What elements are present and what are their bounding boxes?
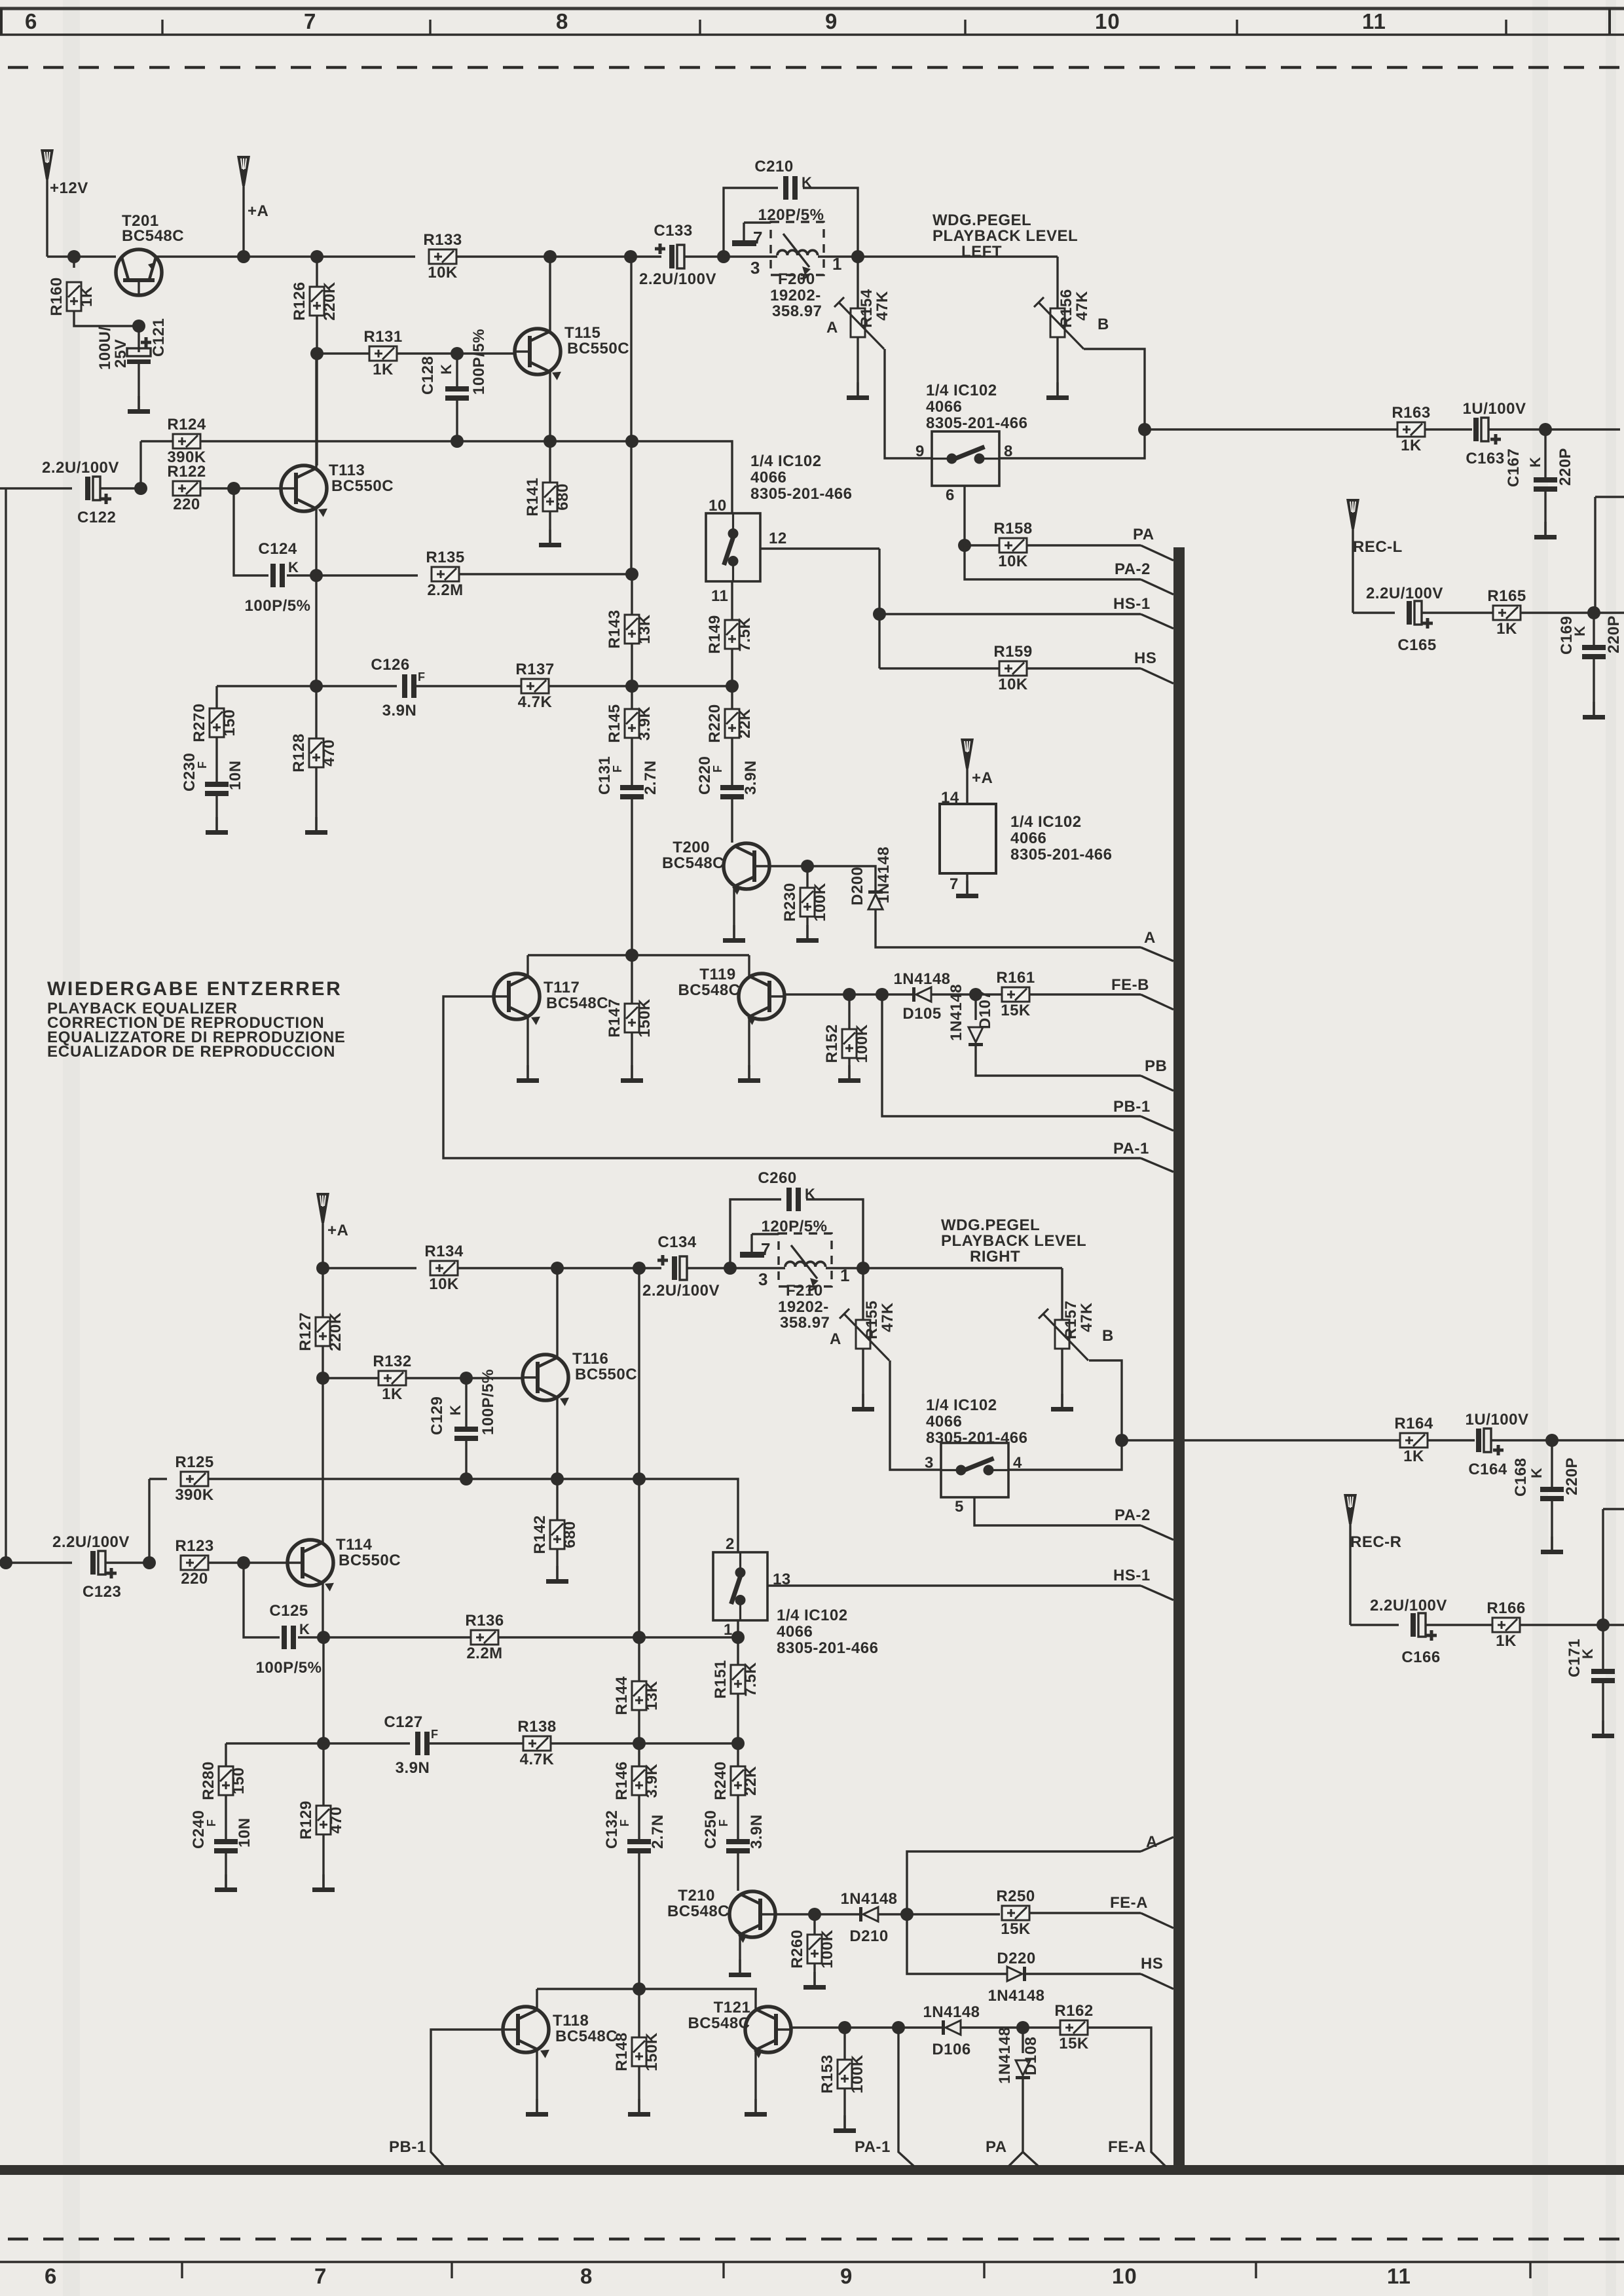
svg-text:11: 11 <box>1362 9 1386 33</box>
input wire left channel <box>0 487 72 489</box>
svg-text:7: 7 <box>761 1239 771 1259</box>
wire REC-L row <box>1353 611 1395 613</box>
wire PB to bus <box>1141 1076 1173 1091</box>
resistor R138 <box>517 1718 556 1768</box>
svg-text:13K: 13K <box>643 1681 661 1711</box>
resistor R165 <box>1487 587 1526 638</box>
wire D107 to PB <box>976 1046 1141 1076</box>
top dashed border <box>8 66 1624 69</box>
wire T118 T121 collector row <box>537 1988 757 1990</box>
svg-text:19202-: 19202- <box>770 287 821 304</box>
resistor R160 <box>73 257 75 268</box>
svg-text:2.2U/100V: 2.2U/100V <box>42 459 119 477</box>
transistor T210 <box>729 1891 775 1943</box>
svg-text:T119: T119 <box>699 966 735 983</box>
capacitor C123 <box>90 1551 117 1578</box>
transistor T121 <box>745 2007 791 2058</box>
svg-text:T118: T118 <box>553 2012 589 2030</box>
svg-text:150K: 150K <box>636 998 654 1038</box>
node rail T115 <box>544 250 557 263</box>
svg-text:10: 10 <box>709 497 727 515</box>
ground R152 <box>838 1065 860 1083</box>
svg-text:R151: R151 <box>712 1660 729 1698</box>
wire PA-1 col <box>898 2028 914 2166</box>
svg-text:2.2U/100V: 2.2U/100V <box>642 1282 720 1300</box>
svg-text:R149: R149 <box>706 615 724 653</box>
svg-text:C123: C123 <box>83 1583 121 1601</box>
svg-text:T116: T116 <box>572 1350 608 1368</box>
node rail2 R127 <box>316 1262 329 1275</box>
svg-text:22K: 22K <box>742 1766 760 1796</box>
wire T118 emitter <box>536 2050 538 2112</box>
capacitor C122 <box>85 477 111 504</box>
svg-text:R144: R144 <box>613 1676 631 1715</box>
svg-text:C131: C131 <box>596 756 614 795</box>
wire D108 to PA <box>1022 2079 1024 2152</box>
svg-text:R138: R138 <box>517 1718 556 1736</box>
capacitor C165 <box>1407 601 1433 629</box>
svg-text:BC550C: BC550C <box>331 477 394 495</box>
resistor R220 <box>731 686 733 709</box>
svg-text:R125: R125 <box>175 1453 213 1471</box>
resistor R147 <box>631 955 633 1004</box>
svg-text:680: 680 <box>561 1521 579 1548</box>
wire T119 emitter <box>748 1017 750 1078</box>
svg-text:PLAYBACK LEVEL: PLAYBACK LEVEL <box>941 1232 1086 1250</box>
svg-text:R146: R146 <box>613 1761 631 1800</box>
pot R155 <box>862 1268 864 1320</box>
svg-text:FE-A: FE-A <box>1110 1894 1148 1912</box>
wire to R157 <box>1061 1268 1063 1320</box>
node R260 <box>808 1908 821 1921</box>
transistor T118 <box>503 2007 549 2058</box>
svg-text:A: A <box>1144 929 1156 947</box>
capacitor C131 <box>631 738 633 785</box>
svg-text:100K: 100K <box>811 883 829 922</box>
svg-text:R158: R158 <box>993 520 1032 538</box>
wire pin1 col to R151 <box>737 1620 739 1665</box>
svg-text:3.9K: 3.9K <box>643 1763 661 1798</box>
wire R124 row <box>200 440 457 442</box>
svg-text:F: F <box>418 670 426 683</box>
resistor R148 <box>638 1989 640 2037</box>
wire R230 node to D200 <box>807 866 876 890</box>
diode D210 <box>859 1907 878 1922</box>
ground T200 <box>723 925 745 943</box>
wire T119 base FE-B row <box>784 993 913 995</box>
diode D200 <box>868 890 883 909</box>
svg-text:100K: 100K <box>853 1024 871 1063</box>
wire R164 to C164 <box>1428 1439 1475 1441</box>
svg-text:PA-1: PA-1 <box>1113 1140 1149 1157</box>
node input junction 2 <box>143 1556 156 1569</box>
svg-text:PA: PA <box>986 2138 1007 2156</box>
svg-text:B: B <box>1102 1327 1114 1345</box>
svg-text:R131: R131 <box>363 328 402 346</box>
svg-text:3.9N: 3.9N <box>748 1814 766 1849</box>
svg-text:K: K <box>805 1186 815 1202</box>
capacitor C168 <box>1551 1440 1553 1487</box>
svg-text:15K: 15K <box>1001 1920 1031 1938</box>
top ruler left end <box>0 9 3 35</box>
ground R142 <box>546 1566 568 1584</box>
wire R131 row <box>317 352 369 354</box>
capacitor C240 <box>225 1795 227 1839</box>
wire PA-2 to bus <box>1141 579 1173 594</box>
svg-text:PB-1: PB-1 <box>389 2138 426 2156</box>
svg-text:R122: R122 <box>167 463 206 481</box>
capacitor C124 <box>270 564 285 587</box>
svg-text:WIEDERGABE ENTZERRER: WIEDERGABE ENTZERRER <box>47 978 342 1000</box>
svg-text:3.9N: 3.9N <box>382 702 417 720</box>
wire switch pin12 <box>760 547 879 549</box>
wire IC pin7 <box>966 873 968 894</box>
wire R134 to T116 <box>458 1267 557 1269</box>
node C129 top <box>460 1372 473 1385</box>
wire C134 to head node <box>687 1267 730 1269</box>
wire C164 to node <box>1491 1439 1552 1441</box>
bottom ruler line <box>0 2261 1624 2263</box>
svg-text:T121: T121 <box>714 1999 751 2016</box>
resistor R151 <box>712 1660 760 1698</box>
svg-text:C124: C124 <box>258 540 297 558</box>
svg-text:2.2M: 2.2M <box>466 1645 502 1662</box>
svg-text:R129: R129 <box>297 1800 315 1839</box>
node switch pin1 col <box>731 1631 745 1644</box>
wire PB-1 branch <box>882 994 1141 1116</box>
node T116 emitter R142 <box>551 1472 564 1485</box>
svg-text:1U/100V: 1U/100V <box>1463 400 1526 418</box>
node T114 emitter <box>317 1631 330 1644</box>
svg-text:8305-201-466: 8305-201-466 <box>926 414 1027 432</box>
capacitor C250 <box>737 1795 739 1839</box>
power arrow +A right channel <box>316 1193 329 1223</box>
svg-text:F: F <box>205 1819 218 1827</box>
svg-text:R148: R148 <box>613 2032 631 2071</box>
svg-text:15K: 15K <box>1001 1002 1031 1019</box>
ground IC102 <box>956 881 978 898</box>
svg-text:RIGHT: RIGHT <box>970 1248 1020 1266</box>
wire row2 left end <box>217 685 316 687</box>
svg-text:2.2U/100V: 2.2U/100V <box>52 1533 130 1551</box>
resistor R162 <box>1054 2002 1093 2052</box>
svg-text:C125: C125 <box>269 1602 308 1620</box>
node A FE-A col <box>900 1908 913 1921</box>
capacitor C133 <box>655 244 684 268</box>
svg-text:4.7K: 4.7K <box>520 1751 555 1768</box>
svg-text:470: 470 <box>327 1806 345 1834</box>
svg-text:R163: R163 <box>1392 404 1430 422</box>
svg-text:R230: R230 <box>781 883 799 921</box>
PA arrow to bottom rail <box>1008 2152 1039 2166</box>
top ruler right end <box>1608 9 1611 35</box>
node C128 top <box>451 347 464 360</box>
wire R124 row to T115 emitter <box>457 440 550 442</box>
svg-text:R156: R156 <box>1058 289 1075 327</box>
left edge input link wire <box>5 488 7 1563</box>
ground T121 <box>745 2099 767 2117</box>
wire column A vertical <box>630 257 632 574</box>
wire R125 row 2 <box>466 1478 557 1480</box>
wire T113 collector <box>315 354 317 468</box>
ground R156 <box>1056 337 1058 395</box>
svg-text:R220: R220 <box>706 704 724 742</box>
resistor R131 <box>363 328 402 378</box>
bottom heavy rail line <box>0 2165 1624 2175</box>
wire connector stub bottom right <box>1603 1508 1624 1510</box>
resistor R129 <box>322 1743 324 1806</box>
node PA-1 branch <box>892 2021 905 2034</box>
diode D107 <box>974 994 976 1020</box>
svg-text:1N4148: 1N4148 <box>996 2027 1014 2084</box>
svg-text:3.9N: 3.9N <box>396 1759 430 1777</box>
capacitor C230 <box>215 737 217 782</box>
svg-text:R145: R145 <box>606 704 623 742</box>
ground C168 <box>1541 1537 1563 1554</box>
wire rail T201 to +A <box>156 255 244 257</box>
resistor R260 <box>813 1914 815 1935</box>
supply arrow +A IC102 <box>961 738 974 769</box>
svg-text:+A: +A <box>248 202 268 220</box>
svg-text:FE-B: FE-B <box>1111 976 1149 994</box>
wire R126 to R131 node <box>316 316 318 354</box>
svg-text:1K: 1K <box>1496 1632 1517 1650</box>
svg-text:R136: R136 <box>465 1612 504 1630</box>
svg-text:D108: D108 <box>1022 2037 1040 2075</box>
svg-text:R164: R164 <box>1394 1415 1433 1432</box>
wire R165 to node <box>1521 611 1594 613</box>
svg-text:T117: T117 <box>544 979 580 996</box>
capacitor C171 <box>1602 1625 1604 1669</box>
svg-text:10: 10 <box>1095 9 1120 33</box>
svg-text:HS: HS <box>1134 649 1156 667</box>
node rail2 colA <box>633 1262 646 1275</box>
wire T117 T119 collector row <box>528 954 749 956</box>
wire column A vertical right channel <box>638 1268 640 1637</box>
wire column A R143 <box>631 574 633 615</box>
wire C127 to R138 <box>428 1742 523 1744</box>
svg-text:BC548C: BC548C <box>678 981 740 999</box>
svg-text:47K: 47K <box>879 1302 896 1332</box>
capacitor C166 <box>1411 1613 1437 1641</box>
node colA row <box>633 1472 646 1485</box>
top ruler line <box>0 33 1624 35</box>
node row2 column A <box>625 680 638 693</box>
bottom dashed border <box>8 2238 1624 2241</box>
svg-text:1K: 1K <box>1496 620 1517 638</box>
wire FE-A row <box>907 1913 1000 1915</box>
ground R157 <box>1061 1349 1063 1407</box>
svg-text:T210: T210 <box>678 1887 715 1904</box>
svg-text:25V: 25V <box>112 339 130 368</box>
svg-text:8: 8 <box>580 2264 593 2288</box>
svg-text:R166: R166 <box>1486 1599 1525 1617</box>
wire row2 to colB <box>639 1742 738 1744</box>
wire T113 emitter <box>315 509 317 577</box>
ground C121 <box>128 396 150 414</box>
svg-text:T115: T115 <box>564 324 600 342</box>
wire R131 to T115 base <box>397 352 515 354</box>
node output right <box>1115 1434 1128 1447</box>
switch IC102a pins 10-12-11 <box>706 513 760 581</box>
node D107 <box>969 988 982 1001</box>
svg-text:2.7N: 2.7N <box>649 1814 667 1849</box>
svg-text:100P/5%: 100P/5% <box>256 1659 322 1677</box>
svg-text:R135: R135 <box>426 549 464 566</box>
svg-text:R159: R159 <box>993 643 1032 661</box>
pot R154 <box>857 257 858 308</box>
wire T117 collector <box>526 955 528 976</box>
svg-text:220K: 220K <box>327 1312 344 1351</box>
svg-text:K: K <box>447 1405 464 1415</box>
transistor T115 <box>515 329 561 380</box>
REC-L arrow <box>1346 499 1359 529</box>
svg-text:2.2U/100V: 2.2U/100V <box>1366 585 1443 602</box>
svg-text:2: 2 <box>726 1535 735 1553</box>
svg-text:8305-201-466: 8305-201-466 <box>777 1639 878 1657</box>
wire net A to bus <box>1141 947 1173 961</box>
capacitor C164 <box>1476 1429 1504 1455</box>
ground T119 <box>738 1065 760 1083</box>
transistor T201 <box>116 249 162 295</box>
wire R138 to node <box>551 1742 639 1744</box>
capacitor C167 <box>1544 429 1546 477</box>
svg-text:1K: 1K <box>373 361 394 378</box>
svg-text:6: 6 <box>946 486 955 504</box>
capacitor C129 <box>465 1378 467 1427</box>
svg-text:A: A <box>826 319 838 337</box>
svg-text:2.2U/100V: 2.2U/100V <box>639 270 716 288</box>
wire switch pin11 down to R149 <box>731 581 733 620</box>
node C171 <box>1596 1618 1610 1631</box>
wire T121 emitter <box>754 2050 756 2112</box>
transistor T116 <box>523 1355 569 1406</box>
svg-text:7: 7 <box>304 9 316 33</box>
wire T200 emitter <box>733 886 735 938</box>
svg-text:C230: C230 <box>181 753 198 792</box>
wire A right to bus <box>1141 1837 1173 1851</box>
capacitor C121 <box>138 326 139 352</box>
svg-text:4066: 4066 <box>777 1623 813 1641</box>
node PA <box>958 539 971 552</box>
bottom ruler ticks <box>181 2262 183 2278</box>
svg-text:C220: C220 <box>696 756 714 795</box>
wire up to R125 <box>148 1479 150 1563</box>
ground C169 <box>1583 702 1605 720</box>
wire R125 row 3 <box>557 1478 639 1480</box>
wire R154 wiper to switch pin9 <box>885 349 932 458</box>
wire R149 down <box>731 649 733 686</box>
diode D220 <box>1007 1967 1026 1981</box>
svg-text:7.5K: 7.5K <box>742 1662 760 1696</box>
svg-text:R240: R240 <box>712 1761 729 1800</box>
resistor R128 <box>315 686 317 738</box>
svg-text:7: 7 <box>950 875 959 893</box>
wire R157 wiper <box>1089 1360 1122 1440</box>
resistor R141 <box>549 441 551 483</box>
svg-text:8: 8 <box>556 9 568 33</box>
resistor R125 <box>149 1478 167 1480</box>
wire row2 to R149 column <box>632 685 732 687</box>
svg-text:1K: 1K <box>382 1385 403 1403</box>
svg-text:R155: R155 <box>863 1300 881 1339</box>
node C168 <box>1545 1434 1559 1447</box>
wire R163 to C163 <box>1425 428 1472 430</box>
svg-text:B: B <box>1098 316 1109 333</box>
wire T114 emitter down <box>322 1637 324 1743</box>
svg-text:K: K <box>288 559 299 575</box>
wire REC-R out to edge <box>1603 1624 1624 1626</box>
svg-text:BC550C: BC550C <box>567 340 629 357</box>
svg-text:100P/5%: 100P/5% <box>479 1369 497 1435</box>
capacitor C220 <box>731 738 733 785</box>
svg-text:R260: R260 <box>788 1929 806 1968</box>
capacitor C134 <box>657 1255 687 1280</box>
svg-text:PLAYBACK LEVEL: PLAYBACK LEVEL <box>932 227 1078 245</box>
svg-text:7: 7 <box>753 228 763 247</box>
svg-text:3.9N: 3.9N <box>742 760 760 795</box>
svg-text:C132: C132 <box>603 1810 621 1849</box>
svg-text:BC548C: BC548C <box>122 227 184 245</box>
svg-text:3.9K: 3.9K <box>636 706 654 740</box>
wire R151 down <box>737 1694 739 1743</box>
node D108 <box>1016 2021 1029 2034</box>
wire R127 to R132 node <box>322 1346 323 1378</box>
resistor R136 <box>465 1612 504 1662</box>
svg-text:1K: 1K <box>78 286 96 307</box>
REC-R arrow <box>1344 1494 1357 1524</box>
wire HS-1 right to bus <box>1141 1586 1173 1600</box>
wire rail2 to C134 <box>639 1267 661 1269</box>
wire rail2 left segment <box>323 1267 416 1269</box>
resistor R142 <box>556 1479 558 1520</box>
svg-text:PB-1: PB-1 <box>1113 1098 1151 1116</box>
wire C165 to R165 <box>1422 611 1493 613</box>
signal bus <box>1173 547 1185 2172</box>
node head2 pin1 <box>857 1262 870 1275</box>
wire C133 to head node <box>684 255 724 257</box>
svg-text:PA: PA <box>1133 526 1154 543</box>
svg-text:WDG.PEGEL: WDG.PEGEL <box>941 1216 1040 1234</box>
input wire right channel <box>0 1561 72 1563</box>
diode D105 <box>912 987 931 1002</box>
wire R123 to T114 <box>208 1561 288 1563</box>
wire REC-R row <box>1350 1624 1399 1626</box>
svg-text:47K: 47K <box>1078 1302 1096 1332</box>
svg-text:220: 220 <box>181 1570 208 1588</box>
node rail R126 <box>310 250 323 263</box>
svg-text:+A: +A <box>972 769 993 787</box>
node PB-1 branch <box>876 988 889 1001</box>
resistor R280 <box>225 1743 227 1766</box>
node T113 emitter <box>310 569 323 582</box>
wire T117 emitter <box>526 1017 528 1078</box>
ground T210 <box>729 1959 751 1977</box>
svg-text:D107: D107 <box>976 991 994 1029</box>
wire C126 to R137 <box>415 685 521 687</box>
wire output left channel <box>1145 428 1397 430</box>
node head pin3 branch <box>717 250 730 263</box>
svg-text:100K: 100K <box>819 1929 836 1969</box>
node head2 branch <box>724 1262 737 1275</box>
svg-text:K: K <box>1572 626 1588 636</box>
wire rail T115 to C133 node <box>550 255 631 257</box>
ground T118 <box>526 2099 548 2117</box>
wire emitter row to R136 <box>323 1636 471 1638</box>
svg-text:100P/5%: 100P/5% <box>470 329 488 395</box>
resistor R166 <box>1486 1599 1525 1650</box>
wire HS-1 to bus <box>1141 614 1173 629</box>
